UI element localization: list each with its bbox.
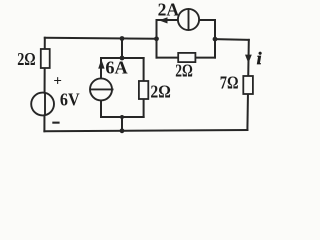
current source 2A circle [178, 9, 199, 30]
junction dot middle loop top [120, 56, 125, 61]
wire 2A loop left vertical [156, 20, 158, 58]
junction dot top wire middle branch [120, 36, 125, 41]
wire 2A loop top horizontal [157, 19, 216, 21]
svg-text:7Ω: 7Ω [220, 73, 239, 93]
wire middle loop bottom horizontal [101, 116, 144, 118]
resistor 2ohm 2A loop horizontal [178, 53, 195, 62]
svg-text:i: i [257, 49, 262, 68]
wire left branch vertical [43, 38, 45, 131]
resistor 2ohm left branch [41, 49, 50, 68]
wire middle loop left vertical [100, 58, 102, 79]
voltage source 6V diameter line [44, 93, 46, 116]
junction dot middle loop bottom [120, 115, 124, 119]
junction dot bottom wire middle branch [120, 128, 125, 133]
wire middle branch top vertical [121, 39, 123, 59]
wire top horizontal right segment [215, 38, 249, 41]
arrow 6A up [98, 59, 104, 68]
svg-text:2A: 2A [158, 0, 179, 19]
wire 2A loop right vertical [214, 20, 216, 58]
svg-text:6A: 6A [105, 58, 127, 78]
wire top horizontal left segment [45, 38, 157, 39]
svg-text:6V: 6V [60, 90, 80, 110]
arrow i down [245, 55, 252, 64]
label minus sign 6V [52, 122, 59, 124]
svg-text:2Ω: 2Ω [150, 82, 170, 102]
svg-text:+: + [53, 73, 62, 89]
current source 2A diameter line [188, 9, 190, 30]
current source 6A diameter line [90, 88, 113, 90]
wire middle loop right vertical lower [143, 99, 145, 117]
junction dot 2A loop left on main wire [154, 36, 159, 41]
resistor 7ohm right branch [243, 76, 253, 94]
wire right branch vertical [247, 40, 248, 130]
voltage source 6V circle [31, 93, 54, 116]
svg-text:2Ω: 2Ω [17, 49, 36, 69]
wire middle branch bottom vertical [121, 117, 123, 131]
svg-text:2Ω: 2Ω [175, 61, 193, 81]
wire 2A loop bottom horizontal [157, 57, 216, 59]
current source 6A circle [90, 78, 112, 100]
wire middle loop right vertical upper [143, 58, 145, 81]
arrow 2A left [159, 17, 168, 23]
wire middle loop top horizontal [101, 57, 144, 59]
junction dot 2A loop right on main wire [213, 37, 218, 42]
wire bottom horizontal [44, 130, 247, 131]
wire middle loop left lower vertical [100, 100, 102, 117]
resistor 2ohm middle loop [139, 81, 148, 99]
